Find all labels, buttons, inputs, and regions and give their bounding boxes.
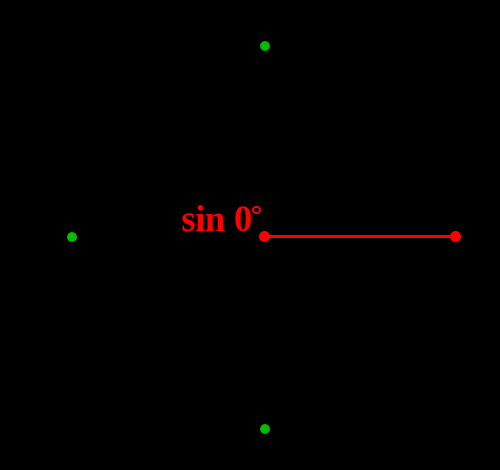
point bottom (0,-1) green (260, 424, 270, 434)
center dot red (259, 231, 270, 242)
radius wire (265, 235, 456, 238)
degree ring (252, 206, 260, 214)
point top (0,1) green (260, 41, 270, 51)
point right (1,0) red (450, 231, 461, 242)
label sin 0 (181, 201, 252, 238)
point left (-1,0) green (67, 232, 77, 242)
